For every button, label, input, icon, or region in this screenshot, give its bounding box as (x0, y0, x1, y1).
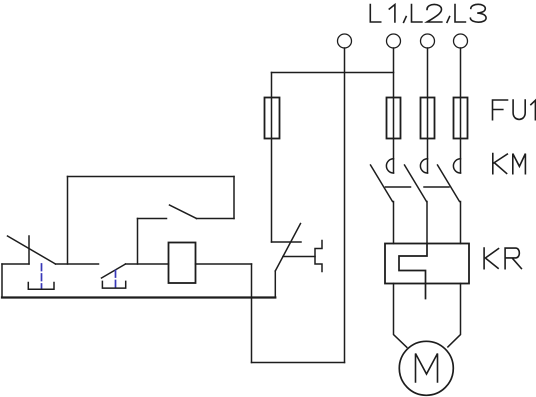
start button SB2 moving contact (102, 264, 126, 278)
wire: L3 terminal down through fuse 3 to KM pole 3 (460, 48, 462, 173)
wire: stop button to start button (56, 263, 99, 265)
contactor coil KM (169, 243, 196, 284)
wire: KM pole 2 to KR box (426, 202, 428, 244)
terminal node L1 (387, 34, 401, 48)
terminal node L3 (454, 34, 468, 48)
label L1.L2.L3 (370, 4, 486, 22)
KM pole 3 fixed contact bowl (453, 159, 460, 173)
stop button SB1 moving contact (8, 236, 56, 264)
wire: holding branch right vertical (233, 177, 235, 219)
wire: bottom rail (2, 296, 275, 298)
wire: holding branch left vertical (67, 177, 69, 265)
start button SB2 actuator bracket (102, 281, 125, 288)
KR heater element (399, 244, 427, 299)
wire: KR box to motor (right) (448, 284, 461, 347)
wire: holding branch top horizontal (68, 176, 235, 178)
stop button SB1 actuator link (41, 264, 43, 288)
wire: control tap horizontal from L1 line (272, 72, 394, 74)
KM linkage bar segment 1 (386, 186, 411, 188)
wire: KR box to motor (left) (394, 284, 407, 348)
wire: L1 terminal down through fuse 1 to KM pole 1 (393, 48, 395, 173)
wire: aux contact down to main run (137, 219, 139, 265)
KM auxiliary contact left lead (138, 218, 167, 220)
KM pole 2 moving contact (405, 165, 427, 202)
wire: control-feed terminal down to return corner (344, 48, 346, 363)
motor M1 (399, 341, 453, 395)
KM pole 2 fixed contact bowl (420, 159, 427, 173)
start button SB2 actuator link (115, 271, 117, 288)
KR trip contact fixed tick (272, 241, 302, 243)
wire: L2 terminal down through fuse 2 to KM pole 2 (427, 48, 429, 173)
terminal node L2 (421, 34, 435, 48)
KM pole 1 moving contact (371, 165, 393, 202)
wire: return bottom horizontal (252, 362, 345, 364)
fuse FU (control branch) (265, 98, 280, 139)
stop button SB1 actuator bracket (28, 283, 54, 290)
fuse FU1 pole 2 (421, 98, 435, 139)
KM auxiliary contact moving arm (170, 205, 197, 219)
KM pole 3 moving contact (438, 165, 460, 202)
terminal node (control feed) (338, 34, 352, 48)
wire: KM pole 3 to KR box (460, 202, 462, 244)
wire: coil to return corner (196, 263, 252, 265)
wire: control tap down through control fuse to KR trip contact (271, 73, 273, 243)
KR trip contact moving arm (275, 224, 300, 272)
fuse FU1 pole 1 (387, 98, 401, 139)
KR trip contact lower lead (274, 271, 276, 298)
wire: KM pole 1 to KR box (393, 202, 395, 244)
wire: left edge vertical (1, 264, 3, 298)
wire: left feed to stop button (2, 263, 29, 265)
motor letter M (416, 354, 438, 383)
KM linkage bar segment 2 (424, 186, 449, 188)
KM auxiliary contact right lead (197, 218, 235, 220)
wire: return drop (251, 264, 253, 363)
stop button SB1 fixed post (28, 236, 30, 264)
KM pole 1 fixed contact bowl (386, 159, 393, 173)
wire: start button to coil (126, 263, 169, 265)
label KR (484, 248, 521, 269)
label FU1 (493, 100, 536, 120)
KR trip linkage bracket (315, 241, 322, 272)
thermal relay KR box (385, 244, 469, 284)
KR trip linkage lead (283, 256, 315, 258)
label KM (493, 154, 526, 174)
fuse FU1 pole 3 (454, 98, 468, 139)
